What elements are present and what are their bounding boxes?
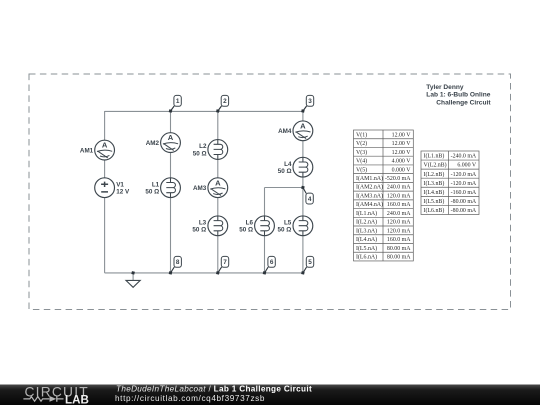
svg-text:12.00 V: 12.00 V <box>392 132 412 138</box>
svg-text:-520.0 mA: -520.0 mA <box>385 176 411 182</box>
svg-text:L6: L6 <box>246 219 254 226</box>
svg-text:50 Ω: 50 Ω <box>145 189 159 196</box>
wire node4 branch left <box>265 187 303 189</box>
junction node 1 <box>169 109 173 113</box>
svg-text:V(2): V(2) <box>356 140 367 147</box>
svg-text:-120.0 mA: -120.0 mA <box>451 181 477 187</box>
credits text <box>115 384 312 403</box>
svg-text:120.0 mA: 120.0 mA <box>387 228 411 234</box>
svg-text:http://circuitlab.com/cq4bf397: http://circuitlab.com/cq4bf39737zsb <box>115 394 265 403</box>
svg-text:4: 4 <box>308 196 312 203</box>
svg-text:L2: L2 <box>199 143 207 150</box>
bottom bar <box>0 385 540 405</box>
junction node 6 <box>263 271 267 275</box>
svg-text:V(1): V(1) <box>356 131 367 138</box>
svg-text:-80.00 mA: -80.00 mA <box>451 208 477 214</box>
ammeter AM1 <box>95 140 115 160</box>
svg-text:50 Ω: 50 Ω <box>239 227 253 234</box>
lamp L2 <box>208 140 228 160</box>
node 2 label <box>218 95 229 111</box>
wire node4 to L5 <box>302 188 304 217</box>
ground <box>126 273 140 287</box>
lamp L6 <box>255 216 275 236</box>
svg-text:V(4): V(4) <box>356 158 367 165</box>
wire bottom rail node8-7-6-5 <box>105 272 303 274</box>
svg-text:50 Ω: 50 Ω <box>277 227 291 234</box>
svg-text:I(AM2.nA): I(AM2.nA) <box>356 184 383 191</box>
svg-text:6: 6 <box>270 259 274 266</box>
wire L4 to node4 <box>302 177 304 188</box>
svg-text:I(L2.nA): I(L2.nA) <box>356 219 377 226</box>
svg-text:Challenge Circuit: Challenge Circuit <box>436 99 491 106</box>
svg-text:TheDudeInTheLabcoat / Lab 1 Ch: TheDudeInTheLabcoat / Lab 1 Challenge Ci… <box>116 384 312 393</box>
svg-text:80.00 mA: 80.00 mA <box>387 255 411 261</box>
svg-text:160.0 mA: 160.0 mA <box>387 202 411 208</box>
svg-text:I(L5.nA): I(L5.nA) <box>356 245 377 252</box>
svg-text:50 Ω: 50 Ω <box>192 227 206 234</box>
junction node 2 <box>216 109 220 113</box>
node 3 label <box>303 95 314 111</box>
wire node1 to AM2 <box>170 111 172 133</box>
svg-text:I(L3.nA): I(L3.nA) <box>356 227 377 234</box>
svg-text:I(L2.nB): I(L2.nB) <box>424 171 445 178</box>
ammeter AM2 <box>161 133 181 153</box>
svg-text:LAB: LAB <box>65 393 89 405</box>
schematic dashed border frame <box>29 74 511 310</box>
wire AM1 to V1 <box>104 160 106 178</box>
title annotation Tyler Denny <box>426 84 491 107</box>
svg-text:12.00 V: 12.00 V <box>392 150 412 156</box>
junction node 8 <box>169 271 173 275</box>
results table B (branch measurements) <box>421 151 479 214</box>
svg-text:I(AM3.nA): I(AM3.nA) <box>356 192 383 199</box>
svg-text:I(L4.nA): I(L4.nA) <box>356 236 377 243</box>
wire top rail node1-2-3 <box>105 110 303 112</box>
wire AM4 to L4 <box>302 141 304 158</box>
svg-text:V1: V1 <box>116 181 124 188</box>
svg-text:80.00 mA: 80.00 mA <box>387 246 411 252</box>
wire L6 to node6 <box>264 236 266 273</box>
svg-text:I(L6.nB): I(L6.nB) <box>424 207 445 214</box>
svg-text:240.0 mA: 240.0 mA <box>387 185 411 191</box>
wire node2 to L2 <box>217 111 219 140</box>
wire node3 to AM4 <box>302 111 304 121</box>
svg-text:2: 2 <box>223 98 227 105</box>
svg-text:4.000 V: 4.000 V <box>392 159 412 165</box>
svg-text:Lab 1: 6-Bulb Online: Lab 1: 6-Bulb Online <box>426 92 490 99</box>
ammeter AM3 <box>208 178 228 198</box>
svg-text:50 Ω: 50 Ω <box>278 168 292 175</box>
wire L3 to node7 <box>217 236 219 273</box>
svg-text:AM2: AM2 <box>146 140 160 147</box>
wire AM3 to L3 <box>217 198 219 217</box>
svg-text:L1: L1 <box>152 181 160 188</box>
svg-text:3: 3 <box>308 98 312 105</box>
svg-text:240.0 mA: 240.0 mA <box>387 211 411 217</box>
svg-text:-80.00 mA: -80.00 mA <box>451 199 477 205</box>
svg-text:I(L3.nB): I(L3.nB) <box>424 180 445 187</box>
node 6 label <box>265 256 276 273</box>
ammeter AM4 <box>293 121 313 141</box>
wire branch down to L6 <box>264 188 266 217</box>
svg-text:I(L1.nB): I(L1.nB) <box>424 153 445 160</box>
svg-text:L5: L5 <box>284 219 292 226</box>
svg-text:120.0 mA: 120.0 mA <box>387 220 411 226</box>
svg-text:50 Ω: 50 Ω <box>193 150 207 157</box>
svg-text:AM4: AM4 <box>278 128 292 135</box>
svg-text:160.0 mA: 160.0 mA <box>387 237 411 243</box>
lamp L4 <box>293 157 313 177</box>
svg-text:12 V: 12 V <box>116 189 130 196</box>
wire AM2 to L1 <box>170 152 172 178</box>
junction node 3 <box>301 109 305 113</box>
svg-text:I(L5.nB): I(L5.nB) <box>424 198 445 205</box>
node 7 label <box>218 256 229 273</box>
junction ground tap <box>131 271 135 275</box>
junction node 4 <box>301 186 305 190</box>
svg-text:-160.0 mA: -160.0 mA <box>451 190 477 196</box>
svg-text:L4: L4 <box>284 161 292 168</box>
svg-text:I(AM1.nA): I(AM1.nA) <box>356 175 383 182</box>
svg-text:I(AM4.nA): I(AM4.nA) <box>356 201 383 208</box>
node 1 label <box>171 95 182 111</box>
svg-text:AM1: AM1 <box>80 147 94 154</box>
results table A (node voltages and currents) <box>354 130 414 261</box>
svg-text:12.00 V: 12.00 V <box>392 141 412 147</box>
svg-text:0.000 V: 0.000 V <box>392 167 412 173</box>
svg-text:6.000 V: 6.000 V <box>457 163 477 169</box>
lamp L1 <box>161 178 181 198</box>
lamp L3 <box>208 216 228 236</box>
wire L1 to node8 <box>170 198 172 273</box>
svg-text:1: 1 <box>176 98 180 105</box>
svg-text:V(5): V(5) <box>356 166 367 173</box>
lamp L5 <box>293 216 313 236</box>
wire col1 top to AM1 <box>104 111 106 140</box>
node 8 label <box>171 256 182 273</box>
svg-text:-120.0 mA: -120.0 mA <box>451 172 477 178</box>
svg-text:V(L2.nB): V(L2.nB) <box>424 162 447 169</box>
wire V1 to bottom rail <box>104 198 106 273</box>
svg-text:L3: L3 <box>199 219 207 226</box>
node 5 label <box>303 256 314 273</box>
svg-text:-240.0 mA: -240.0 mA <box>451 154 477 160</box>
svg-text:7: 7 <box>223 259 227 266</box>
svg-text:120.0 mA: 120.0 mA <box>387 193 411 199</box>
circuitlab logo <box>23 384 88 405</box>
svg-text:I(L4.nB): I(L4.nB) <box>424 189 445 196</box>
svg-text:8: 8 <box>176 259 180 266</box>
svg-text:AM3: AM3 <box>193 185 207 192</box>
wire L5 to node5 <box>302 236 304 273</box>
svg-text:V(3): V(3) <box>356 149 367 156</box>
svg-text:5: 5 <box>308 259 312 266</box>
junction node 5 <box>301 271 305 275</box>
voltage source V1 <box>95 178 115 198</box>
svg-text:Tyler Denny: Tyler Denny <box>426 84 464 91</box>
svg-text:I(L6.nA): I(L6.nA) <box>356 254 377 261</box>
junction node 7 <box>216 271 220 275</box>
node 4 label <box>303 188 313 205</box>
wire L2 to AM3 <box>217 159 219 178</box>
svg-text:I(L1.nA): I(L1.nA) <box>356 210 377 217</box>
